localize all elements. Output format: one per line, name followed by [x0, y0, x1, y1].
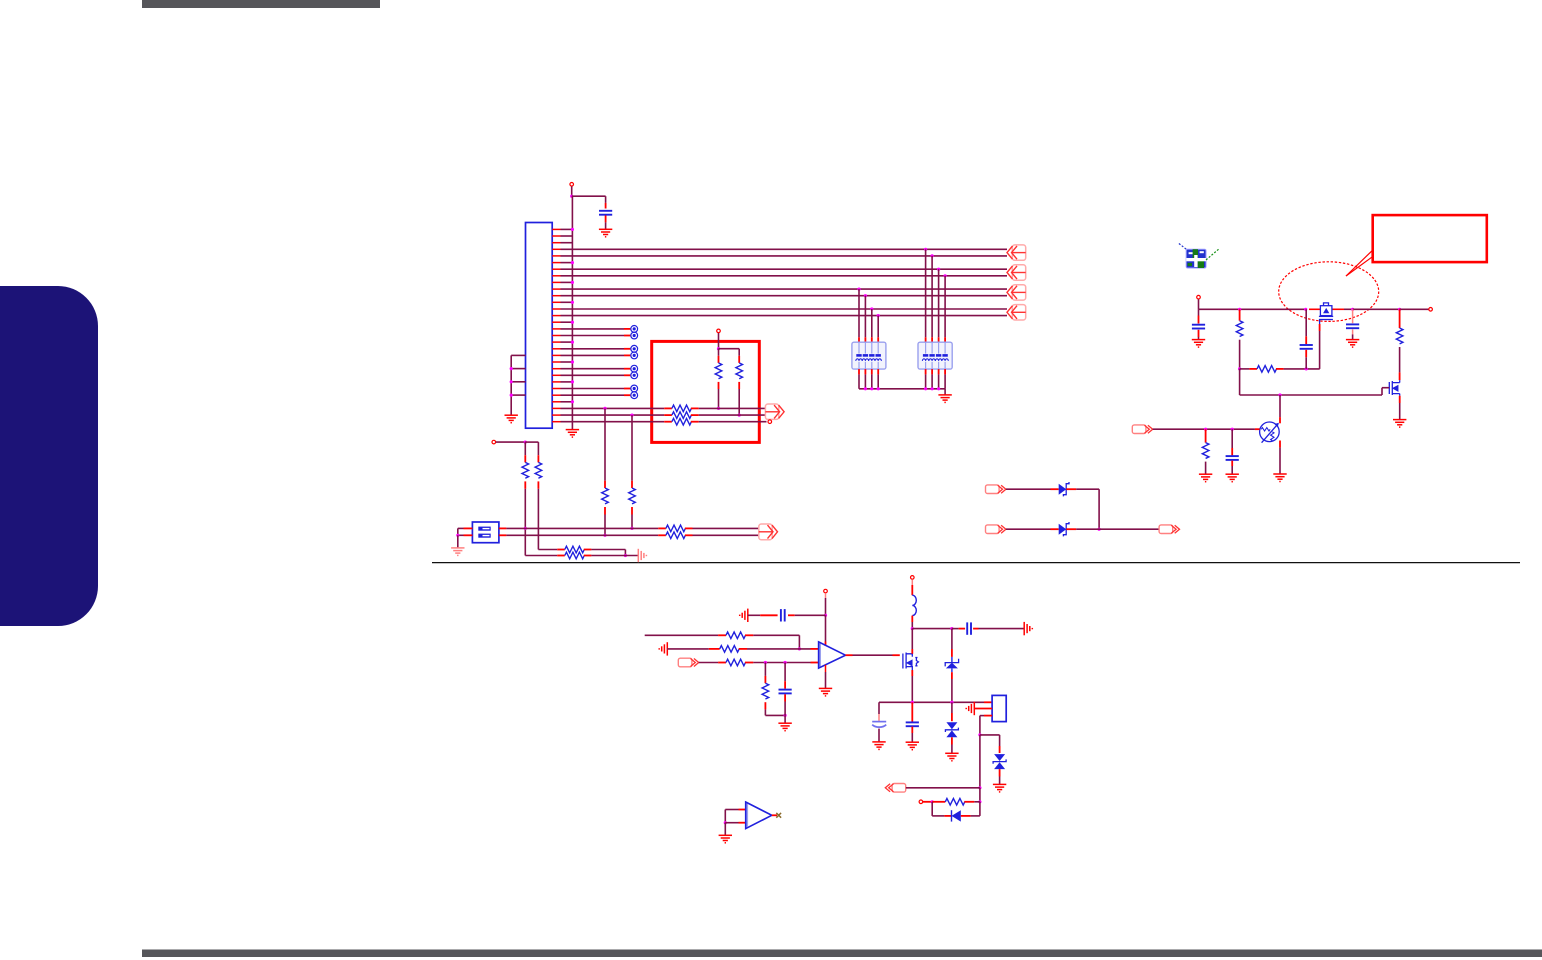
wire: [699, 421, 767, 423]
wire: [1205, 462, 1207, 475]
wire: [878, 702, 880, 714]
wire: [912, 628, 952, 630]
TVS diode D4: [945, 722, 958, 737]
junction: [911, 701, 914, 704]
pin stub: [1399, 396, 1401, 403]
junction: [798, 647, 801, 650]
wire: [561, 341, 573, 343]
pin stub: [871, 337, 873, 342]
pin stub: [846, 654, 853, 656]
resistor R9: [535, 462, 542, 478]
off-page connector IN1: [986, 485, 1006, 494]
junction: [877, 314, 880, 317]
junction: [950, 701, 953, 704]
junction: [524, 441, 527, 444]
junction: [911, 627, 914, 630]
pin stub: [825, 642, 827, 646]
power rail: [1199, 308, 1306, 310]
wire: [879, 701, 984, 703]
thermistor RT1: [1260, 422, 1280, 443]
resistor R5: [672, 418, 691, 425]
mosfet Q2: [1389, 380, 1399, 396]
pin stub: [691, 407, 699, 409]
wire: [561, 407, 665, 409]
wire: [631, 415, 633, 481]
ground (rotated): [638, 549, 646, 562]
junction: [1304, 308, 1307, 311]
pin stub: [999, 746, 1001, 753]
wire: [951, 629, 953, 649]
wire: [1381, 388, 1383, 395]
junction: [944, 274, 947, 277]
pin: [768, 420, 772, 424]
pin stub: [931, 369, 933, 374]
off-page connector OUT: [1159, 525, 1179, 534]
pin stub: [524, 455, 526, 462]
wire: [1098, 489, 1100, 529]
resistor R4: [672, 412, 691, 419]
wire: [853, 654, 893, 656]
junction: [571, 321, 574, 324]
junction: [824, 614, 827, 617]
power rail: [1353, 308, 1400, 310]
pin VCC: [570, 183, 574, 187]
wire: [1153, 428, 1255, 430]
wire: [561, 394, 625, 396]
wire: [561, 414, 665, 416]
pin stub: [893, 654, 900, 656]
zener diode D2: [1059, 522, 1069, 536]
pin stub: [1205, 429, 1207, 442]
off-page connector pair: [1007, 305, 1026, 320]
pin: [492, 440, 496, 444]
ground: [1346, 340, 1359, 348]
wire: [825, 672, 827, 688]
wire: [877, 374, 879, 388]
pin stub: [745, 634, 753, 636]
wire: [1198, 299, 1200, 309]
wire: [1239, 340, 1241, 369]
wire: [1240, 394, 1382, 396]
pin stub: [932, 801, 945, 803]
pin stub: [624, 368, 630, 370]
wire: [1076, 528, 1159, 530]
wire: [718, 333, 720, 349]
junction: [630, 414, 633, 417]
pin stub: [784, 694, 786, 701]
bus wire: [561, 295, 1008, 297]
junction: [1398, 308, 1401, 311]
pin stub: [631, 481, 633, 488]
wire: [561, 281, 573, 283]
junction: [950, 627, 953, 630]
pin stub: [871, 369, 873, 374]
wire: [1240, 368, 1250, 370]
wire: [561, 381, 573, 383]
wire: [1399, 403, 1401, 420]
wire: [1231, 466, 1233, 474]
pin: [919, 800, 923, 804]
pin stub: [604, 481, 606, 488]
wire: [864, 296, 866, 338]
pin stub: [1319, 324, 1321, 331]
connector J1 right pin stubs: [552, 229, 560, 421]
wire: [605, 196, 607, 203]
junction: [571, 360, 574, 363]
pin V+: [824, 589, 828, 593]
junction: [1238, 308, 1241, 311]
pin stub: [464, 527, 473, 529]
op-amp U3: [819, 642, 846, 668]
wire: [699, 662, 718, 664]
wire: [979, 788, 981, 802]
junction: [1305, 367, 1308, 370]
junction: [978, 786, 981, 789]
off-page connector pair: [1007, 265, 1026, 280]
pin stub: [685, 527, 693, 529]
resistor R14: [1236, 321, 1243, 337]
wire: [753, 634, 799, 636]
pin stub: [499, 534, 507, 536]
pin stub: [984, 715, 992, 717]
wire: [561, 401, 573, 403]
pin stub: [984, 701, 992, 703]
no-connect: [631, 372, 638, 379]
wire: [1198, 309, 1200, 315]
off-page connector FB: [678, 658, 698, 667]
wire: [524, 442, 526, 455]
pin stub: [959, 628, 966, 630]
pin stub: [878, 714, 880, 721]
wire: [1231, 429, 1233, 448]
junction: [571, 380, 574, 383]
off-page connector pair: [765, 404, 784, 419]
pin stub: [709, 648, 720, 650]
pin stub: [825, 593, 827, 598]
ground (rotated): [659, 642, 667, 655]
no-connect: [631, 385, 638, 392]
wire: [858, 374, 860, 388]
pin stub: [624, 335, 630, 337]
resistor R13: [565, 552, 584, 559]
wire: [979, 735, 981, 788]
pin stub: [1239, 309, 1241, 320]
wire: [1319, 331, 1321, 369]
ground (rotated): [966, 702, 974, 715]
pin stub: [944, 337, 946, 342]
junction: [524, 527, 527, 530]
junction: [603, 534, 606, 537]
wire: [604, 515, 606, 536]
pin stub: [1066, 488, 1076, 490]
pin stub: [1198, 330, 1200, 337]
power rail red segment: [1309, 308, 1320, 310]
wire: [561, 335, 625, 337]
pin stub: [911, 649, 913, 654]
capacitor C6: [781, 609, 785, 621]
navy sidebar tab: [0, 286, 98, 626]
junction: [738, 414, 741, 417]
pin stub: [624, 328, 630, 330]
TVS diode D5: [993, 754, 1006, 769]
ground: [451, 548, 464, 556]
wire: [591, 549, 625, 551]
pin stub: [1198, 316, 1200, 324]
pin stub: [739, 648, 747, 650]
wire: [591, 555, 638, 557]
pin VOUT: [1429, 308, 1433, 312]
pin stub: [951, 737, 953, 744]
wire: [764, 663, 766, 676]
junction: [630, 527, 633, 530]
pin stub: [911, 580, 913, 586]
pin stub: [718, 662, 726, 664]
pin stub: [784, 681, 786, 689]
pin stub: [911, 585, 913, 595]
wire: [931, 256, 933, 337]
diode D6: [952, 810, 961, 821]
pin stub: [911, 727, 913, 733]
junction: [571, 228, 574, 231]
wire: [871, 309, 873, 337]
pin stub: [605, 203, 607, 209]
pin stub: [764, 676, 766, 683]
wire: [999, 735, 1001, 746]
off-page connector TH: [1132, 425, 1152, 434]
junction: [764, 661, 767, 664]
zener diode D1: [1059, 482, 1069, 496]
bus wire: [561, 308, 1008, 310]
junction: [937, 268, 940, 271]
off-page connector pair: [1007, 245, 1026, 260]
pin stub: [658, 534, 666, 536]
junction: [877, 387, 880, 390]
wire: [906, 787, 980, 789]
wire: [1284, 368, 1320, 370]
wire: [784, 663, 786, 682]
resistor R21: [762, 683, 769, 699]
wire: [561, 374, 625, 376]
pin stub: [811, 662, 819, 664]
wire: [911, 622, 913, 629]
junction: [1238, 367, 1241, 370]
wire: [537, 442, 539, 455]
wire: [944, 374, 946, 388]
pin VBAT: [911, 576, 915, 580]
mosfet Q1: [903, 653, 919, 671]
pin VIN: [1197, 295, 1201, 299]
pin stub: [1231, 448, 1233, 455]
wire: [974, 801, 980, 803]
pin stub: [658, 527, 666, 529]
wire: [944, 389, 946, 395]
mosfet U2: [1319, 303, 1333, 320]
pin stub: [973, 628, 978, 630]
pin stub: [1279, 441, 1281, 448]
pin stub: [772, 814, 777, 816]
wire: [693, 534, 759, 536]
pin stub: [1399, 372, 1401, 380]
junction: [1204, 428, 1207, 431]
wire: [718, 349, 720, 356]
wire: [795, 614, 826, 616]
wire: [911, 733, 913, 742]
wire: [999, 777, 1001, 785]
junction: [931, 800, 934, 803]
ground: [906, 742, 919, 750]
wire: [784, 702, 786, 716]
pin stub: [691, 414, 699, 416]
pin stub: [624, 388, 630, 390]
pin stub: [1279, 417, 1281, 423]
wire: [1352, 334, 1354, 339]
pin stub: [858, 337, 860, 342]
pin stub: [923, 801, 932, 803]
pin stub: [739, 809, 746, 811]
polarized capacitor C9: [872, 722, 886, 727]
pin stub: [604, 507, 606, 515]
junction: [571, 400, 574, 403]
resistor R8: [522, 462, 529, 478]
pin stub: [624, 354, 630, 356]
pin stub: [864, 337, 866, 342]
pin stub: [877, 337, 879, 342]
wire: [561, 421, 665, 423]
wire: [871, 374, 873, 388]
pin stub: [1051, 528, 1059, 530]
pin stub: [718, 634, 726, 636]
resistor R7: [629, 488, 636, 504]
pin stub: [858, 369, 860, 374]
bus wire: [561, 315, 1008, 317]
pin stub: [1276, 368, 1284, 370]
wire: [724, 823, 726, 836]
wire: [951, 702, 953, 713]
junction: [784, 714, 787, 717]
junction: [870, 387, 873, 390]
junction: [571, 281, 574, 284]
ground under thermistor: [1273, 474, 1286, 482]
pin stub: [925, 337, 927, 342]
wire: [938, 269, 940, 337]
junction: [978, 733, 981, 736]
ground: [872, 742, 885, 750]
wire: [1076, 488, 1099, 490]
wire: [938, 374, 940, 388]
ground under connector: [566, 430, 579, 438]
junction: [570, 195, 573, 198]
pin stub: [537, 455, 539, 462]
power rail: [1400, 308, 1429, 310]
pin stub: [911, 616, 913, 622]
wire: [951, 679, 953, 702]
pin stub: [738, 356, 740, 363]
pin stub: [975, 708, 992, 710]
pin stub: [951, 713, 953, 721]
wire: [561, 348, 625, 350]
wire: [1305, 357, 1307, 369]
pin stub: [944, 815, 951, 817]
pin stub: [557, 549, 565, 551]
wire: [561, 242, 573, 244]
pin stub: [760, 614, 777, 616]
junction: [1231, 428, 1234, 431]
bus wire: [561, 268, 1008, 270]
wire: [525, 555, 557, 557]
capacitor C2: [1192, 325, 1205, 329]
wire: [561, 235, 573, 237]
junction: [864, 387, 867, 390]
wire: [878, 729, 880, 742]
bus wire: [561, 275, 1008, 277]
resistor R22: [945, 799, 964, 806]
junction: [571, 261, 574, 264]
wire: [738, 349, 740, 356]
pin stub: [1399, 309, 1401, 328]
pin stub: [685, 534, 693, 536]
wire: [979, 716, 981, 735]
section divider line: [432, 562, 1520, 564]
capacitor C5: [1226, 456, 1239, 460]
wire: [645, 634, 718, 636]
junction: [1351, 308, 1354, 311]
wire: [525, 441, 538, 443]
ground: [945, 753, 958, 761]
wire: [458, 527, 464, 529]
wire: [877, 316, 879, 338]
no-connect: [631, 345, 638, 352]
pin stub: [691, 421, 699, 423]
wire: [457, 528, 459, 535]
ground: [778, 723, 791, 731]
wire: [747, 648, 811, 650]
wire: [561, 368, 625, 370]
power rail red segment: [1332, 308, 1344, 310]
wire: [561, 301, 573, 303]
pin VTERM: [717, 329, 721, 333]
capacitor C3: [1300, 345, 1313, 349]
wire: [667, 648, 709, 650]
junction: [784, 661, 787, 664]
junction: [931, 254, 934, 257]
wire: [561, 228, 573, 230]
wire gate of U2: [1319, 320, 1321, 325]
resistor R20: [726, 659, 745, 666]
wire: [725, 822, 738, 824]
wire: [571, 186, 573, 196]
wire op-amp V-: [825, 665, 827, 672]
wire: [605, 222, 607, 229]
wire: [561, 361, 573, 363]
wire: [748, 614, 760, 616]
wire: [719, 348, 740, 350]
junction: [571, 301, 574, 304]
wire: [765, 714, 785, 716]
callout pointer lines: [1346, 250, 1373, 276]
pin stub: [911, 670, 913, 676]
wire: [1279, 395, 1281, 417]
off-page connector pair: [759, 524, 778, 540]
wire: [724, 810, 726, 823]
pin stub: [1066, 528, 1076, 530]
power rail: [1344, 308, 1353, 310]
pin stub: [624, 374, 630, 376]
bus wire: [561, 255, 1008, 257]
connector J1 left pin wires: [511, 355, 525, 415]
wire: [561, 262, 573, 264]
ground (rotated): [1024, 622, 1032, 635]
junction: [1098, 528, 1101, 531]
